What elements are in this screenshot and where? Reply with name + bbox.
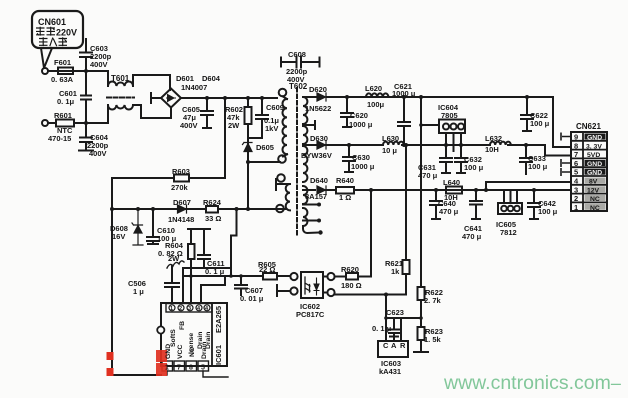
IC601 bottom pin cells: [162, 361, 209, 371]
diode D640: [317, 186, 326, 194]
svg-text:D601: D601: [176, 74, 194, 83]
svg-text:12V: 12V: [587, 187, 600, 194]
svg-text:R603: R603: [172, 167, 190, 176]
capacitor C603: [80, 53, 92, 58]
svg-text:D605: D605: [256, 143, 274, 152]
transformer T602 aux pin1: [276, 205, 284, 213]
wire reference net: [386, 317, 421, 319]
svg-text:kA431: kA431: [379, 367, 401, 376]
svg-text:GND: GND: [587, 161, 602, 168]
inductor L620: [366, 93, 388, 97]
svg-text:CN621: CN621: [576, 122, 601, 131]
wire 3.3V rail: [303, 97, 571, 147]
node pin3 circle: [290, 287, 297, 294]
svg-text:E2A265: E2A265: [214, 306, 223, 333]
resistor R624: [206, 206, 218, 213]
svg-text:1000 μ: 1000 μ: [392, 89, 416, 98]
capacitor C642: [528, 190, 540, 219]
svg-text:9: 9: [574, 133, 578, 142]
svg-text:www.cntronics.com–: www.cntronics.com–: [443, 372, 621, 394]
svg-text:400V: 400V: [287, 75, 305, 84]
wire: [108, 71, 170, 90]
wire IC601 ground: [166, 371, 168, 375]
capacitor C611: [198, 229, 210, 268]
svg-text:400V: 400V: [90, 60, 108, 69]
svg-text:5VD: 5VD: [587, 152, 600, 159]
svg-text:1: 1: [165, 365, 169, 372]
svg-text:100 μ: 100 μ: [528, 162, 548, 171]
svg-text:1N4148: 1N4148: [168, 215, 194, 224]
wire bridge left stub: [151, 93, 161, 103]
svg-text:1: 1: [574, 203, 578, 212]
capacitor C640: [430, 190, 442, 219]
wire pin9 gnd stub: [561, 133, 571, 141]
svg-text:1. 5k: 1. 5k: [424, 335, 442, 344]
svg-text:7812: 7812: [500, 228, 517, 237]
svg-text:7805: 7805: [441, 111, 458, 120]
svg-text:100 μ: 100 μ: [538, 207, 558, 216]
svg-text:3. 3V: 3. 3V: [586, 143, 602, 150]
resistor R640: [336, 187, 354, 194]
connector pin2 NC cell: [585, 195, 606, 201]
wire: [108, 105, 171, 123]
transformer T601 (common-mode choke): [107, 82, 134, 110]
svg-text:Drain: Drain: [201, 342, 208, 359]
capacitor C606: [165, 266, 179, 303]
connector pin5 GND cell: [585, 169, 606, 175]
wire VCC line: [112, 208, 286, 210]
wire R620 net: [323, 190, 371, 277]
node AC input terminal 2: [42, 120, 48, 126]
connector pin6 GND cell: [585, 160, 606, 166]
svg-text:CN601: CN601: [38, 17, 66, 27]
svg-text:1 μ: 1 μ: [133, 287, 144, 296]
wire ground bus: [184, 275, 290, 277]
svg-text:0. 1 μ: 0. 1 μ: [205, 267, 225, 276]
svg-text:2: 2: [179, 306, 182, 312]
resistor R620: [346, 273, 358, 280]
svg-text:1000 μ: 1000 μ: [351, 162, 375, 171]
wire FB bus: [183, 268, 231, 303]
svg-text:GND: GND: [587, 134, 602, 141]
capacitor C632: [455, 145, 467, 173]
transformer T602 aux winding: [286, 184, 290, 210]
svg-text:8A157: 8A157: [305, 192, 327, 201]
resistor R601 (NTC): [48, 120, 108, 127]
inductor L640: [446, 187, 462, 194]
capacitor C605: [201, 98, 213, 128]
connector pin1 NC cell: [585, 204, 606, 210]
svg-text:FB: FB: [179, 321, 186, 330]
capacitor C633: [520, 145, 532, 174]
wire 5V rail: [349, 145, 571, 156]
node soft start terminal: [157, 326, 164, 333]
IC IC601 E2A265: [161, 303, 227, 366]
svg-text:400V: 400V: [180, 121, 198, 130]
svg-text:8: 8: [574, 141, 578, 150]
svg-text:R601: R601: [54, 111, 72, 120]
svg-text:2W: 2W: [228, 121, 240, 130]
wire opto cathode bar: [277, 285, 290, 296]
transformer T602 secondary tap tick: [303, 121, 315, 129]
wire R603 riser: [224, 98, 226, 178]
capacitor C620: [341, 97, 353, 127]
svg-text:C630: C630: [352, 153, 370, 162]
svg-text:R: R: [400, 341, 406, 350]
capacitor C609: [248, 98, 268, 138]
resistor R603: [112, 175, 225, 182]
svg-text:T601: T601: [111, 74, 130, 83]
svg-text:8V: 8V: [589, 179, 598, 186]
svg-text:470 μ: 470 μ: [439, 207, 459, 216]
svg-text:A: A: [391, 341, 397, 350]
svg-text:L640: L640: [443, 178, 460, 187]
svg-text:D604: D604: [202, 74, 221, 83]
svg-text:1k: 1k: [391, 267, 400, 276]
node AC input terminal 1: [42, 68, 48, 74]
wire vertical bus: [85, 39, 87, 150]
regulator IC604 7805: [421, 120, 465, 152]
node pin2 circle: [327, 289, 334, 296]
capacitor C608: [281, 57, 320, 68]
svg-text:1000 μ: 1000 μ: [349, 120, 373, 129]
svg-text:L630: L630: [382, 134, 399, 143]
svg-text:8: 8: [189, 365, 193, 372]
svg-text:1N5622: 1N5622: [305, 104, 331, 113]
svg-text:1N4007: 1N4007: [181, 83, 207, 92]
svg-text:2W: 2W: [168, 254, 180, 263]
optocoupler IC602: [301, 272, 323, 298]
svg-text:VCC: VCC: [177, 345, 184, 359]
wire opto pin2 net: [323, 293, 386, 342]
svg-text:R624: R624: [203, 198, 222, 207]
svg-text:C: C: [383, 341, 389, 350]
svg-text:7: 7: [177, 365, 181, 372]
svg-text:C608: C608: [288, 50, 306, 59]
svg-text:0. 63A: 0. 63A: [51, 75, 74, 84]
resistor R604: [188, 229, 210, 303]
capacitor C641: [470, 190, 482, 219]
svg-text:16V: 16V: [112, 232, 125, 241]
wire pin4 to winding: [283, 97, 287, 100]
capacitor C601: [81, 96, 91, 100]
svg-text:F601: F601: [54, 58, 71, 67]
svg-text:D640: D640: [310, 176, 328, 185]
inductor L630: [383, 142, 404, 145]
svg-text:2. 7k: 2. 7k: [424, 296, 442, 305]
svg-text:IC601: IC601: [214, 345, 223, 365]
capacitor C604: [79, 138, 93, 151]
svg-text:270k: 270k: [171, 183, 189, 192]
svg-text:C623: C623: [386, 308, 404, 317]
node winding section dot: [303, 204, 317, 206]
svg-text:3: 3: [188, 306, 191, 312]
svg-text:R640: R640: [336, 176, 354, 185]
inductor L632: [490, 142, 511, 145]
connector CN601 callout bubble: [32, 11, 83, 68]
IC601 header pin numbers: [170, 306, 209, 312]
capacitor C622: [521, 97, 533, 131]
wire drain pins jog: [201, 276, 225, 303]
svg-text:180 Ω: 180 Ω: [341, 281, 362, 290]
diode D630: [303, 141, 349, 149]
svg-text:GND: GND: [165, 344, 172, 359]
svg-text:D630: D630: [310, 134, 328, 143]
wire pin5 gnd stub: [561, 168, 571, 176]
zener D605: [243, 139, 253, 209]
red highlight marks: [107, 350, 168, 376]
wire pin6 gnd stub: [561, 159, 571, 167]
ground hatch R604: [167, 261, 184, 268]
transformer T602 primary winding: [283, 99, 288, 154]
wire winding bottom hook: [303, 226, 318, 233]
svg-text:22 Ω: 22 Ω: [259, 265, 275, 274]
capacitor C630: [343, 145, 355, 172]
svg-text:C620: C620: [350, 111, 368, 120]
node pin4 circle: [290, 273, 297, 280]
svg-text:6: 6: [574, 159, 578, 168]
zener D608: [132, 209, 143, 245]
capacitor C631: [440, 145, 452, 173]
connector pin4 8V cell: [585, 178, 606, 184]
svg-text:0. 01 μ: 0. 01 μ: [240, 294, 264, 303]
svg-text:D607: D607: [173, 198, 191, 207]
wire left tall rail: [112, 178, 161, 375]
svg-text:NC: NC: [590, 205, 600, 212]
resistor R621: [386, 145, 410, 295]
svg-text:C609: C609: [266, 103, 284, 112]
diode bridge D601-D604: [161, 89, 181, 108]
svg-text:470-15: 470-15: [48, 134, 71, 143]
svg-text:470 μ: 470 μ: [418, 171, 438, 180]
svg-text:220V: 220V: [56, 28, 77, 38]
diode D607: [178, 205, 187, 213]
transformer T602 aux pin2: [277, 174, 285, 182]
resistor R622 divider rail: [418, 97, 425, 327]
svg-text:L632: L632: [485, 134, 502, 143]
diode D620: [317, 93, 326, 101]
capacitor C610: [147, 209, 159, 244]
svg-text:5: 5: [201, 365, 205, 372]
svg-text:100 μ: 100 μ: [464, 163, 484, 172]
svg-text:100μ: 100μ: [367, 100, 385, 109]
svg-text:1: 1: [170, 306, 173, 312]
resistor R623: [414, 327, 428, 352]
svg-text:0. 1 μ: 0. 1 μ: [372, 324, 392, 333]
node pin1 circle: [327, 273, 334, 280]
wire 8V-12V rail: [303, 189, 571, 191]
svg-text:1 Ω: 1 Ω: [339, 193, 351, 202]
svg-text:0. 1μ: 0. 1μ: [57, 97, 75, 106]
svg-text:PC817C: PC817C: [296, 310, 325, 319]
capacitor C621: [398, 97, 410, 145]
svg-text:L620: L620: [365, 84, 382, 93]
wire drain zigzag: [231, 209, 237, 276]
resistor R605: [263, 273, 277, 280]
shunt regulator IC603 kA431: [378, 318, 408, 357]
wire pin3 to return: [248, 154, 287, 162]
svg-text:NC: NC: [189, 347, 196, 357]
connector pin3 12V cell: [585, 186, 606, 192]
svg-text:33 Ω: 33 Ω: [205, 214, 221, 223]
svg-text:GND: GND: [587, 170, 602, 177]
wire: [48, 70, 108, 72]
svg-text:2: 2: [574, 194, 578, 203]
svg-text:D620: D620: [309, 85, 327, 94]
capacitor C623: [389, 318, 399, 341]
wire primary return: [248, 161, 278, 163]
regulator IC605 7812: [498, 190, 522, 214]
connector CN621: [571, 132, 607, 211]
svg-text:NC: NC: [590, 196, 600, 203]
fuse F601: [56, 68, 73, 75]
svg-text:10H: 10H: [485, 145, 499, 154]
capacitor C607: [235, 276, 247, 295]
resistor R602: [245, 98, 252, 139]
svg-text:1kV: 1kV: [265, 124, 278, 133]
node winding section dot: [303, 220, 317, 222]
svg-text:5: 5: [574, 168, 578, 177]
wire aux pin2 stub bar: [276, 179, 290, 190]
transformer T602 primary winding pin4: [279, 89, 287, 97]
svg-text:BYW36V: BYW36V: [301, 151, 332, 160]
connector pin numbers and names: [574, 133, 579, 212]
transformer T602 secondary winding: [303, 97, 307, 124]
svg-text:470 μ: 470 μ: [462, 232, 482, 241]
transformer T602 primary pin3: [278, 155, 286, 163]
svg-text:R620: R620: [341, 265, 359, 274]
wire 8V step to pin4: [486, 182, 571, 190]
IC601 pin labels: [165, 306, 223, 365]
connector pin9 GND cell: [585, 134, 606, 140]
wire drain pin5 stub: [203, 371, 228, 377]
svg-text:3: 3: [574, 185, 578, 194]
svg-text:10 μ: 10 μ: [382, 146, 397, 155]
svg-text:400V: 400V: [89, 149, 107, 158]
IC601 bottom pin numbers: [165, 365, 205, 372]
transformer T602 core: [296, 88, 298, 237]
svg-text:100 μ: 100 μ: [530, 119, 550, 128]
svg-text:7: 7: [574, 150, 578, 159]
wire main DC rail: [181, 97, 277, 99]
